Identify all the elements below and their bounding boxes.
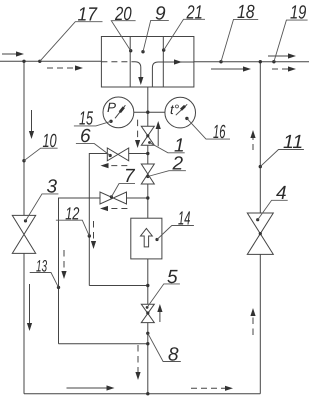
dashed arrow beside valve1 left (137, 120, 139, 140)
label P (107, 103, 116, 112)
arrowhead right riser up lower (250, 308, 255, 316)
dot leader17 (38, 60, 41, 63)
label 20 underline+leader (111, 21, 135, 51)
label 4 underline+leader (258, 200, 288, 219)
label 12 (66, 207, 80, 219)
arrowhead below valve6 left (101, 163, 109, 168)
wire valve7 to left branch13 corner (59, 198, 101, 344)
solid flow arrow beside valve1 up (157, 129, 159, 146)
label 13 underline+leader (30, 273, 59, 288)
arrowhead stem bottom down (135, 372, 140, 380)
label 8 (169, 347, 179, 360)
elbow up-out inside box (152, 62, 194, 87)
valve 3 bowtie (12, 215, 35, 253)
label tdeg (171, 105, 179, 115)
label 17 (78, 7, 98, 20)
center stem below box (147, 87, 149, 126)
dot leader14 (155, 238, 158, 241)
stem between box14 and valve5 (147, 259, 149, 304)
dashed arrow right riser up near 11 (252, 136, 254, 150)
solid flow arrow mid-right below line (211, 68, 243, 70)
hollow up arrow inside box 14 (141, 228, 153, 247)
dot leader10 (22, 159, 25, 162)
dot valve4 center (259, 232, 262, 235)
dashed arrow below valve6 (109, 165, 128, 167)
arrowhead dashed top-left (75, 65, 83, 70)
label 10 underline+leader (24, 148, 58, 161)
temperature gauge t circle (165, 97, 196, 128)
stem between valve1 and valve2 (147, 145, 149, 164)
solid flow arrow left riser down lower (29, 284, 31, 323)
gauge branch line (134, 111, 165, 113)
label 15 (79, 111, 93, 124)
label 12 underline+leader (56, 220, 89, 236)
junction dot right riser top (259, 60, 262, 63)
arrowhead valve1 solid up (156, 121, 161, 129)
dot leader19 (272, 60, 275, 63)
arrowhead valve1 dashed down (135, 140, 140, 148)
label 10 (43, 134, 57, 147)
arrowhead bottom-left right (107, 385, 115, 390)
label 9 (156, 6, 166, 19)
wire valve6 to left branch corner (89, 154, 107, 286)
label 14 underline+leader (157, 226, 194, 240)
wire branch12 horizontal to stem (89, 285, 148, 287)
wire top supply line left (0, 60, 101, 62)
wire left riser lower (23, 253, 25, 393)
label 5 underline+leader (147, 284, 180, 308)
dashed arrow below valve7 (108, 208, 127, 210)
label 11 underline+leader (260, 150, 304, 167)
label 20 (115, 7, 132, 20)
arrowhead inside box down (138, 77, 143, 85)
label 3 (47, 179, 57, 192)
label 3 underline+leader (26, 194, 59, 221)
dashed arrow branch13 (63, 250, 65, 271)
valve 5 bowtie (141, 304, 154, 322)
arrowhead bottom-right dashed (225, 386, 233, 391)
valve 6 bowtie (107, 148, 128, 161)
dot leader3 (24, 219, 27, 222)
arrowhead below valve7 left (100, 206, 108, 211)
gauge P needle (115, 105, 125, 118)
needle wedge P (120, 107, 124, 112)
needle wedge t (181, 106, 185, 110)
arrowhead inside box right (174, 59, 182, 64)
label 4 (276, 186, 286, 199)
label 16 (213, 125, 225, 138)
dot leader16 (185, 117, 188, 120)
pressure gauge P circle (103, 97, 134, 128)
solid flow arrow beside valve5 up (159, 312, 161, 322)
wire right riser upper (259, 62, 261, 213)
label 1 (174, 138, 182, 151)
dot leader18 (219, 60, 222, 63)
label 6 underline+leader (76, 144, 110, 156)
arrowhead top-left entry (16, 51, 24, 56)
reversing unit box 9/20/21 (101, 37, 193, 88)
label 7 (126, 169, 135, 182)
label 18 underline+leader (221, 19, 258, 61)
wire bottom line (24, 393, 260, 395)
solid flow arrow top-left entry (2, 53, 17, 55)
label 7 underline+leader (111, 184, 135, 197)
dashed flow arrow top-left below line (47, 67, 75, 69)
wire left riser (23, 61, 25, 215)
label 15 underline+leader (74, 121, 111, 126)
arrowhead top-right solid (288, 53, 296, 58)
dot leader12 (88, 234, 91, 237)
dashed arrow bottom-right (191, 387, 225, 389)
arrowhead right riser up near 11 (250, 130, 255, 138)
dot leader21 (162, 48, 165, 51)
label 14 (178, 211, 190, 224)
dashed inlet inside box (101, 61, 135, 63)
arrowhead branch13 down (61, 271, 66, 279)
dot leader11 (259, 165, 262, 168)
solid flow arrow bottom-left (67, 387, 107, 389)
solid flow arrow top-right above line (268, 55, 288, 57)
arrowhead top-right dashed (288, 66, 296, 71)
dot leader4 (256, 218, 259, 221)
dot leader7 (110, 195, 113, 198)
junction dot branch12 stem (146, 284, 149, 287)
filter/pump box 14 (131, 218, 162, 259)
junction dot node8 (146, 332, 149, 335)
label 19 underline+leader (274, 20, 308, 62)
valve 1 bowtie (141, 126, 154, 145)
label 2 underline+leader (148, 171, 186, 177)
gauge t needle (176, 104, 187, 115)
arrowhead valve5 up (157, 304, 162, 312)
wire right riser lower (259, 254, 261, 393)
junction dot valve6 line stem (146, 152, 149, 155)
stem below valve5 to bottom (147, 323, 149, 394)
dot leader20 (129, 49, 132, 52)
valve 2 bowtie (141, 164, 154, 184)
dot leader5 (146, 306, 149, 309)
junction dot gauges stem (146, 111, 149, 114)
wire top supply line right (194, 61, 309, 63)
dot leader6 (109, 154, 112, 157)
dot leader1 (148, 141, 151, 144)
divider 21 (162, 37, 164, 88)
label 6 (81, 129, 91, 142)
arrowhead branch12 down (91, 241, 96, 249)
dashed arrow right riser up lower (252, 316, 254, 335)
dot valve2 center leader2 (146, 175, 149, 178)
dashed arrow branch12 (93, 221, 95, 241)
junction dot branch13 stem (146, 342, 149, 345)
arrowhead left riser down (29, 131, 34, 139)
label 17 underline+leader (40, 22, 103, 62)
dashed arrow below stem bottom (137, 345, 139, 372)
arrowhead left riser down lower (27, 323, 32, 331)
dot valve5 center (146, 311, 149, 314)
junction dot valve7 line stem (146, 196, 149, 199)
dashed flow arrow top-right below line (272, 68, 288, 70)
label 8 underline+leader (148, 333, 181, 361)
label 18 (237, 5, 254, 18)
dot leader15 (109, 120, 112, 123)
label 13 (36, 260, 47, 272)
elbow down inside box (135, 62, 141, 78)
wire valve7 to stem (127, 197, 148, 199)
label 21 underline+leader (164, 19, 205, 50)
junction dot left riser top (22, 60, 25, 63)
label 21 (186, 5, 201, 18)
valve 7 bowtie (100, 192, 127, 204)
label 9 underline+leader (143, 20, 169, 51)
dot leader9 (141, 50, 144, 53)
label 5 (167, 270, 177, 283)
dot valve1 center (146, 134, 149, 137)
label 11 (284, 135, 302, 148)
label 19 (290, 5, 306, 18)
stem between valve2 and box14 (147, 184, 149, 218)
wire branch13 horizontal to stem (59, 343, 148, 345)
divider 20 (129, 37, 131, 88)
valve 4 bowtie (247, 213, 273, 254)
label 16 underline+leader (187, 118, 230, 139)
wire valve6 to stem (129, 153, 148, 155)
label 2 (172, 156, 182, 169)
dot leader13 (57, 286, 60, 289)
arrowhead mid-right (243, 66, 251, 71)
label 1 underline+leader (150, 143, 185, 153)
junction dot stem bottom (146, 392, 149, 395)
solid flow arrow left riser down (31, 110, 33, 131)
